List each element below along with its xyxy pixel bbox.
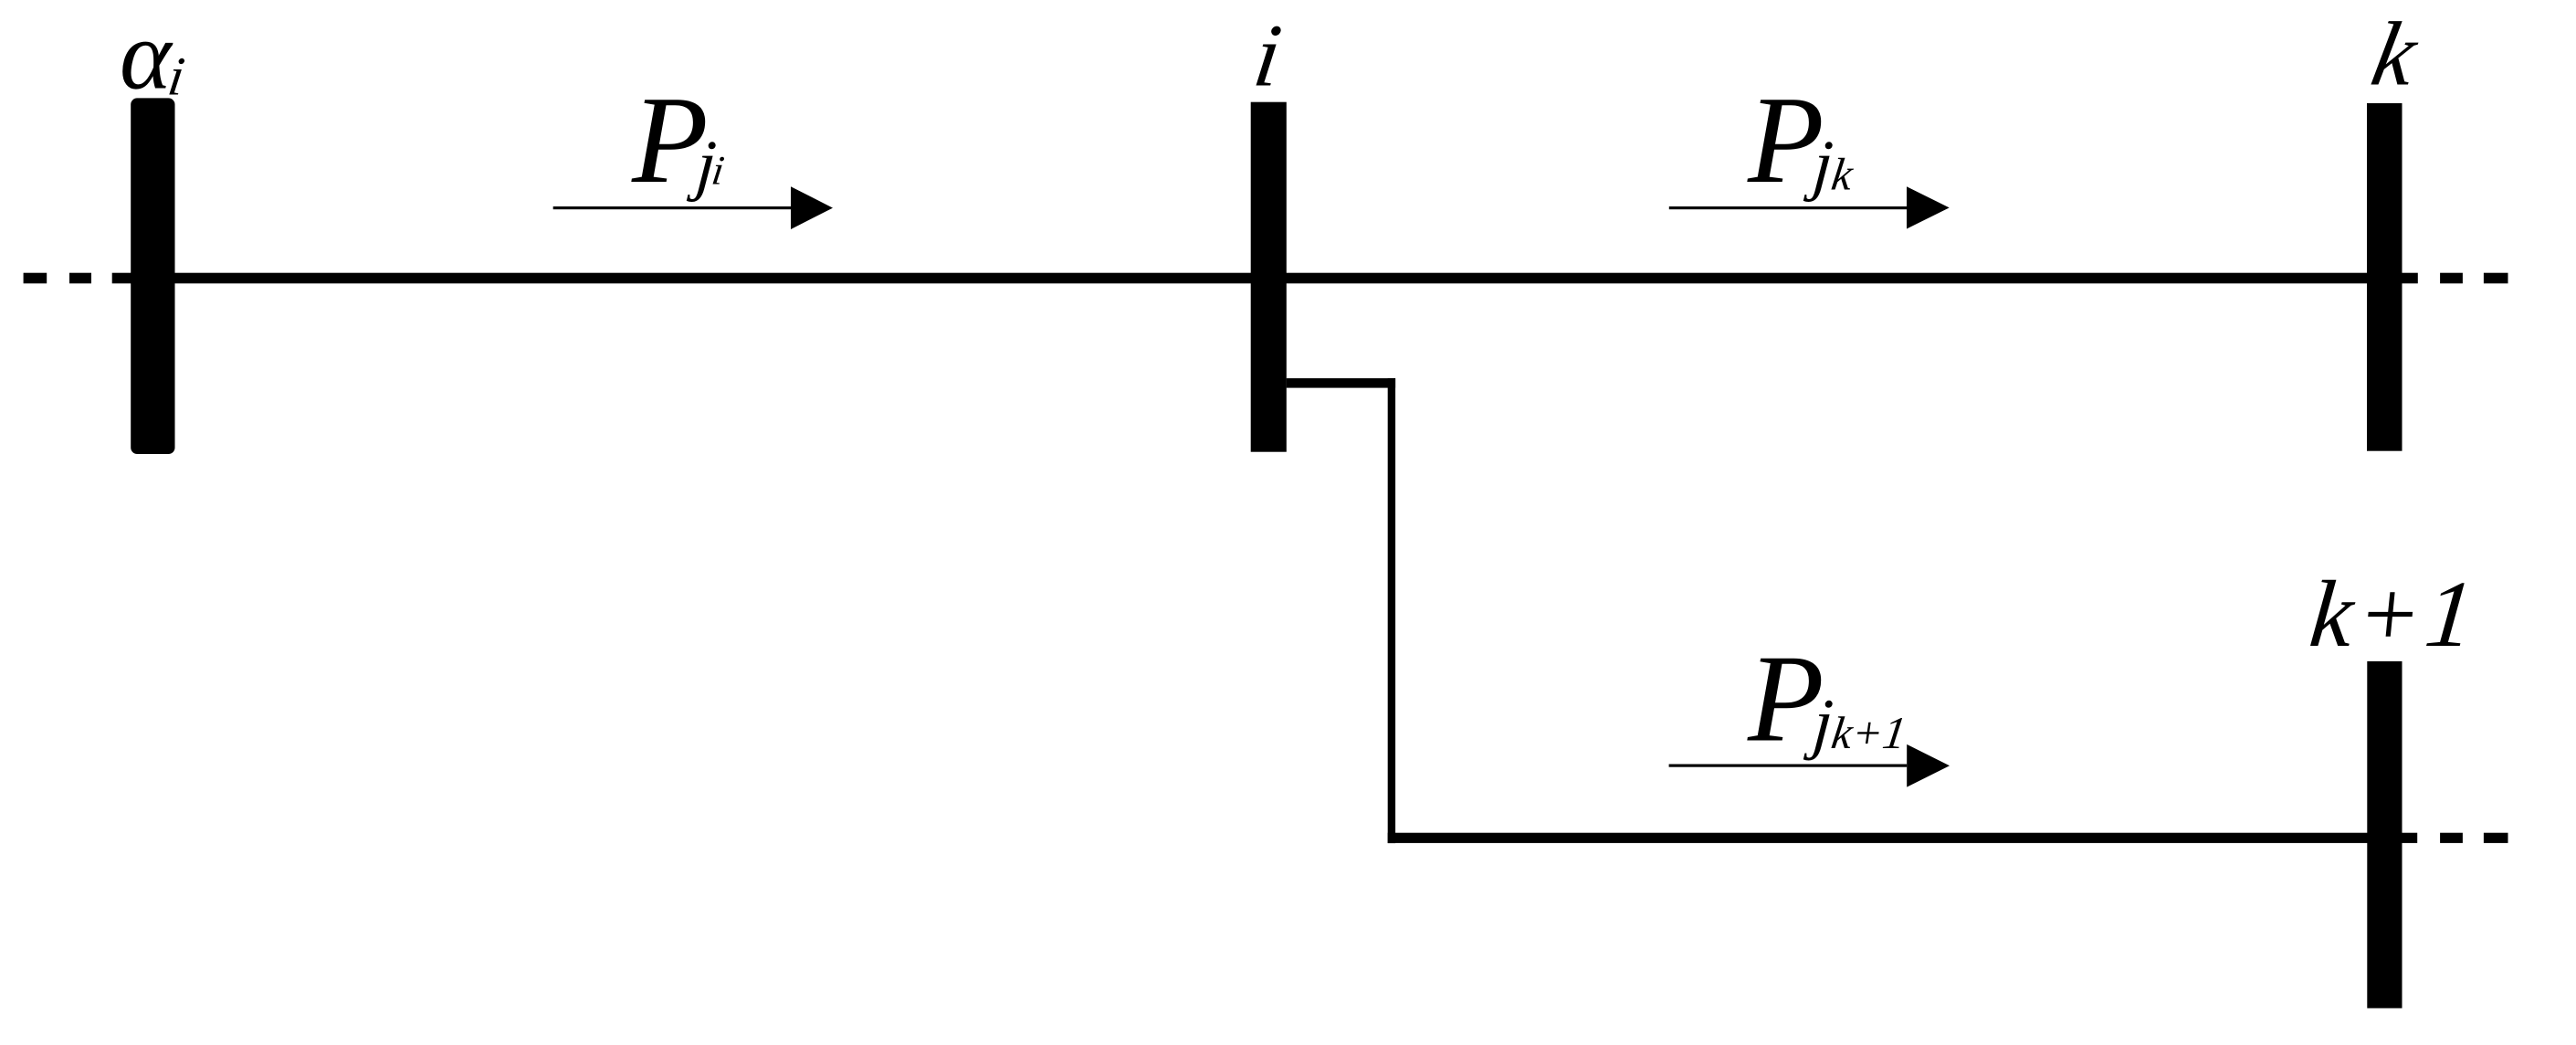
arrow: P_ji flow direction — [553, 186, 833, 229]
label k (name of right bus) — [2371, 21, 2418, 84]
label P_ji (power flow on line alpha_i -> i) — [631, 100, 724, 202]
wire: stub and dashed continuation right of bus k — [2403, 273, 2508, 284]
bus k busbar — [2367, 103, 2403, 451]
wire: dashed continuation at far left of feeder — [24, 273, 131, 284]
label P_jk+1 (power flow on branch i -> k+1) — [1747, 659, 1902, 761]
bus k+1 busbar — [2367, 661, 2402, 1008]
bus i busbar — [1251, 102, 1287, 452]
label P_jk (power flow on line i -> k) — [1747, 100, 1854, 202]
bus alpha_i busbar — [131, 98, 174, 454]
wire: stub and dashed continuation right of bus k+1 — [2403, 833, 2508, 843]
wire: vertical riser down to branch toward bus k+1 — [1388, 378, 1395, 843]
wire: main feeder line from bus alpha_i through bus i to bus k — [131, 273, 2403, 284]
arrow: P_jk+1 flow direction — [1669, 744, 1950, 787]
wire: tap stub from bus i to the vertical riser — [1287, 378, 1395, 388]
label k+1 (name of bottom right bus) — [2310, 580, 2465, 646]
label alpha_i (name of left bus) — [122, 42, 184, 95]
label i (name of middle bus) — [1256, 26, 1281, 86]
arrow: P_jk flow direction — [1669, 186, 1950, 228]
wire: bottom branch line from riser to bus k+1 — [1388, 833, 2403, 843]
